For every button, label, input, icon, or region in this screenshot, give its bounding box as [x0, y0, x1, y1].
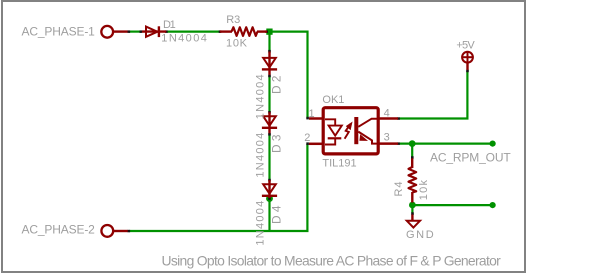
svg-text:+5V: +5V — [456, 39, 475, 51]
connector pin AC_PHASE-2 — [101, 225, 113, 237]
wire lower output rail — [412, 204, 492, 206]
junction OK1 pin3 node — [409, 140, 416, 147]
svg-text:4: 4 — [384, 107, 390, 119]
resistor R4 — [409, 158, 417, 202]
wire OK1 pin3 to AC_RPM_OUT — [400, 143, 493, 145]
svg-text:1N4004: 1N4004 — [161, 32, 208, 44]
wire bottom rail up to OK1 pin2 — [306, 144, 308, 231]
wire junction down to D2 — [268, 33, 270, 51]
svg-text:R3: R3 — [226, 14, 240, 26]
svg-text:AC_PHASE-1: AC_PHASE-1 — [22, 25, 96, 39]
wire D4 to bottom rail — [268, 198, 270, 231]
OK1 phototransistor — [354, 117, 378, 144]
svg-text:OK1: OK1 — [322, 94, 344, 106]
wire D1 to R3 — [167, 31, 220, 33]
wire bottom rail — [130, 230, 309, 232]
pin connection tick marks (black) — [128, 30, 469, 232]
OK1 internal LED — [325, 119, 342, 144]
svg-text:D2: D2 — [270, 72, 284, 94]
node end dot AC_RPM_OUT upper — [490, 141, 496, 147]
svg-text:D1: D1 — [163, 19, 176, 31]
supply +5V symbol — [462, 52, 473, 70]
ground symbol GND — [407, 215, 420, 228]
svg-text:1N4004: 1N4004 — [254, 73, 266, 119]
junction R4 bottom node — [409, 202, 416, 209]
wire R4 to GND junction — [411, 202, 413, 213]
node end dot lower — [490, 202, 496, 208]
wire top rail segment circle to D1 — [129, 31, 141, 33]
svg-text:GND: GND — [406, 229, 435, 241]
svg-text:1N4004: 1N4004 — [254, 200, 266, 246]
svg-text:D3: D3 — [270, 131, 284, 153]
svg-text:Using Opto Isolator to Measure: Using Opto Isolator to Measure AC Phase … — [162, 252, 502, 268]
wire R3 junction to OK1 pin1 feed — [271, 32, 308, 118]
diode D3 — [262, 112, 277, 133]
svg-text:1N4004: 1N4004 — [254, 132, 266, 178]
wire junction down to R4 — [411, 144, 413, 157]
connector pin AC_PHASE-1 — [101, 26, 113, 38]
wire OK1 pin4 to +5V — [400, 71, 468, 119]
junction below D4 — [266, 195, 273, 202]
junction R3 output node — [266, 29, 272, 35]
svg-text:10k: 10k — [418, 179, 430, 201]
diode D4 — [262, 180, 277, 198]
diode D1 — [142, 26, 166, 37]
svg-text:10K: 10K — [226, 37, 248, 49]
svg-text:2: 2 — [304, 132, 310, 144]
OK1 light arrow — [345, 123, 352, 139]
svg-text:3: 3 — [384, 131, 390, 143]
svg-text:1: 1 — [309, 108, 315, 120]
svg-text:D4: D4 — [270, 202, 284, 224]
resistor R3 — [220, 27, 267, 36]
svg-text:AC_PHASE-2: AC_PHASE-2 — [22, 223, 96, 237]
diode D2 — [262, 52, 277, 75]
svg-text:TIL191: TIL191 — [322, 158, 356, 170]
opto-isolator OK1 body — [309, 108, 398, 154]
wire D3 to D4 — [268, 134, 270, 179]
svg-text:R4: R4 — [393, 181, 405, 197]
svg-text:AC_RPM_OUT: AC_RPM_OUT — [430, 151, 511, 165]
wire D2 to D3 — [268, 76, 270, 112]
